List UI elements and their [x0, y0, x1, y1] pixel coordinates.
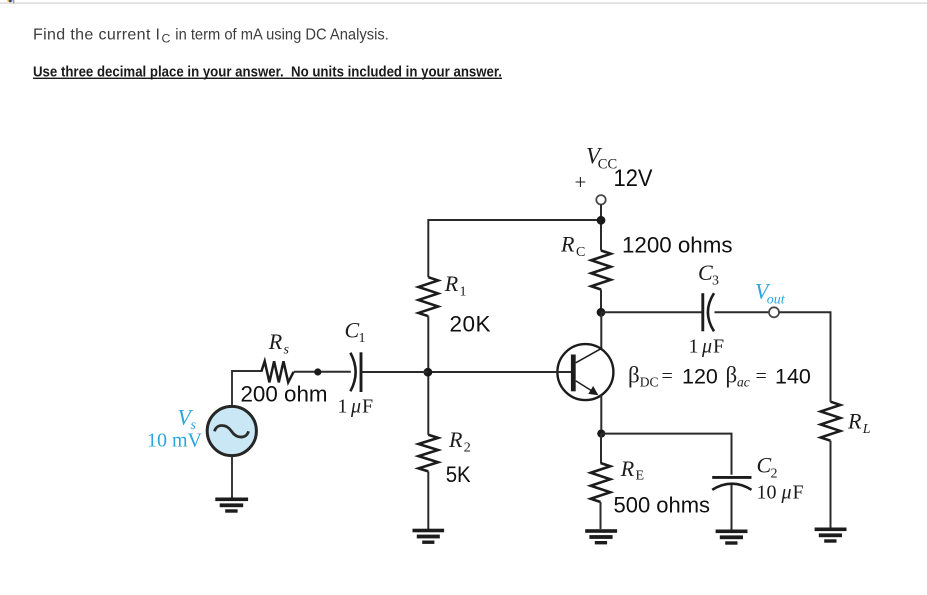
svg-text:R: R [560, 232, 575, 257]
resistor R1 [419, 277, 439, 316]
beta values [628, 363, 811, 390]
svg-text:10 mV: 10 mV [147, 430, 203, 452]
label Rs [268, 329, 290, 358]
svg-text:1: 1 [689, 336, 699, 358]
svg-text:12V: 12V [614, 165, 653, 192]
wire RC to collector node [600, 290, 602, 313]
svg-text:5K: 5K [446, 462, 471, 487]
wire emitter to RE [600, 434, 602, 463]
label RL [847, 409, 871, 438]
svg-text:s: s [284, 343, 290, 358]
svg-text:R: R [448, 427, 463, 452]
source Vs circle [207, 406, 256, 455]
transistor Q1 base bar [571, 355, 576, 392]
capacitor C3 [703, 293, 714, 331]
label R1 [444, 271, 467, 300]
wire collector [600, 312, 602, 349]
wire Vs to ground [231, 456, 233, 498]
wire Vout to RL [779, 312, 830, 401]
browser chrome top edge [0, 0, 927, 4]
wire RE to ground [600, 502, 602, 529]
resistor R2 [419, 435, 439, 472]
svg-text:F: F [713, 336, 724, 358]
resistor RL [821, 402, 841, 441]
svg-text:C: C [757, 453, 772, 478]
instruction line 2 (bold underlined) [33, 64, 502, 80]
capacitor C1 [350, 352, 361, 392]
wire emitter [600, 395, 602, 434]
svg-text:200 ohm: 200 ohm [241, 382, 328, 407]
transistor Q1 circle [557, 344, 613, 400]
wire R2 to ground [427, 471, 429, 529]
resistor Rs [261, 361, 293, 382]
svg-text:C: C [698, 260, 713, 285]
resistor RE [591, 463, 611, 502]
source Vs sine [215, 426, 249, 438]
svg-text:Find the current I: Find the current I [33, 26, 160, 43]
ground below RE [585, 529, 617, 544]
value 10 mV [147, 430, 203, 452]
wire Rs to C1 [294, 371, 351, 373]
wire output node to C3 [601, 311, 702, 313]
label Vout [755, 279, 786, 308]
svg-text:μ: μ [701, 336, 712, 358]
Vcc terminal circle [596, 195, 605, 204]
wire RL to ground [830, 441, 832, 528]
value 1 uF (C1) [338, 396, 374, 418]
svg-text:10: 10 [757, 482, 777, 504]
wire R1 branch upper [427, 219, 429, 277]
svg-text:1: 1 [359, 331, 366, 346]
label C1 [345, 318, 366, 347]
wire source corner [232, 371, 261, 406]
label RC [560, 232, 585, 261]
svg-text:R: R [268, 329, 283, 354]
svg-text:in term of mA using DC Analysi: in term of mA using DC Analysis. [175, 26, 388, 43]
node collector [597, 308, 606, 317]
svg-text:20K: 20K [450, 312, 491, 337]
label RE [620, 456, 644, 484]
svg-text:F: F [362, 396, 373, 418]
wire emitter rail to C2 [601, 434, 731, 475]
svg-text:+: + [575, 170, 587, 194]
svg-text:2: 2 [771, 467, 778, 482]
ground below RL [815, 528, 847, 543]
svg-text:E: E [636, 469, 645, 484]
svg-text:C: C [576, 245, 585, 260]
label C2 [757, 453, 778, 482]
svg-text:R: R [847, 409, 862, 434]
resistor RC [591, 251, 611, 290]
svg-text:μ: μ [781, 482, 792, 504]
svg-text:1: 1 [460, 285, 467, 300]
svg-text:F: F [793, 482, 804, 504]
wire base [428, 371, 571, 373]
junction dot Rs-C1 [314, 368, 321, 375]
ground below R2 [413, 529, 445, 544]
svg-text:ac: ac [737, 375, 750, 390]
transistor Q1 collector stroke [576, 348, 602, 363]
wire C1 to base node [362, 371, 429, 373]
capacitor C2 [712, 477, 751, 489]
svg-text:C: C [345, 318, 360, 343]
label C3 [698, 260, 719, 289]
svg-text:R: R [444, 271, 459, 296]
wire top rail [428, 219, 601, 221]
svg-text:500 ohms: 500 ohms [614, 492, 711, 517]
node emitter [597, 430, 605, 438]
svg-text:=: = [662, 366, 673, 388]
wire R1 to R2 through base node [427, 316, 429, 435]
svg-text:out: out [767, 293, 786, 308]
label R2 [448, 427, 471, 456]
svg-text:=: = [756, 366, 767, 388]
value 10 uF [757, 482, 804, 504]
svg-text:β: β [628, 363, 640, 388]
transistor Q1 emitter stroke [576, 381, 595, 393]
ground below C2 [716, 530, 748, 545]
svg-text:1200 ohms: 1200 ohms [622, 232, 733, 257]
Vout terminal circle [769, 307, 779, 317]
wire C2 to ground [731, 485, 733, 530]
svg-text:L: L [862, 422, 871, 437]
svg-text:μ: μ [350, 396, 361, 418]
wire C3 to Vout [715, 311, 769, 313]
wire Vcc stub [600, 205, 602, 251]
svg-text:140: 140 [775, 364, 811, 388]
label Vs [178, 405, 197, 434]
svg-text:C: C [162, 32, 171, 46]
svg-text:β: β [726, 363, 738, 388]
svg-text:R: R [620, 456, 635, 481]
ground below Vs [215, 498, 248, 513]
svg-text:3: 3 [712, 274, 719, 289]
label Vcc [586, 144, 617, 173]
node base (R1/R2 junction) [424, 368, 433, 377]
svg-text:120: 120 [682, 364, 718, 388]
instruction line 1 [33, 26, 389, 45]
svg-text:1: 1 [338, 396, 348, 418]
svg-text:DC: DC [640, 375, 659, 390]
svg-text:2: 2 [464, 441, 471, 456]
junction dot top rail [597, 216, 606, 225]
value 1 uF (C3) [689, 336, 725, 358]
transistor Q1 emitter arrowhead [588, 386, 598, 395]
